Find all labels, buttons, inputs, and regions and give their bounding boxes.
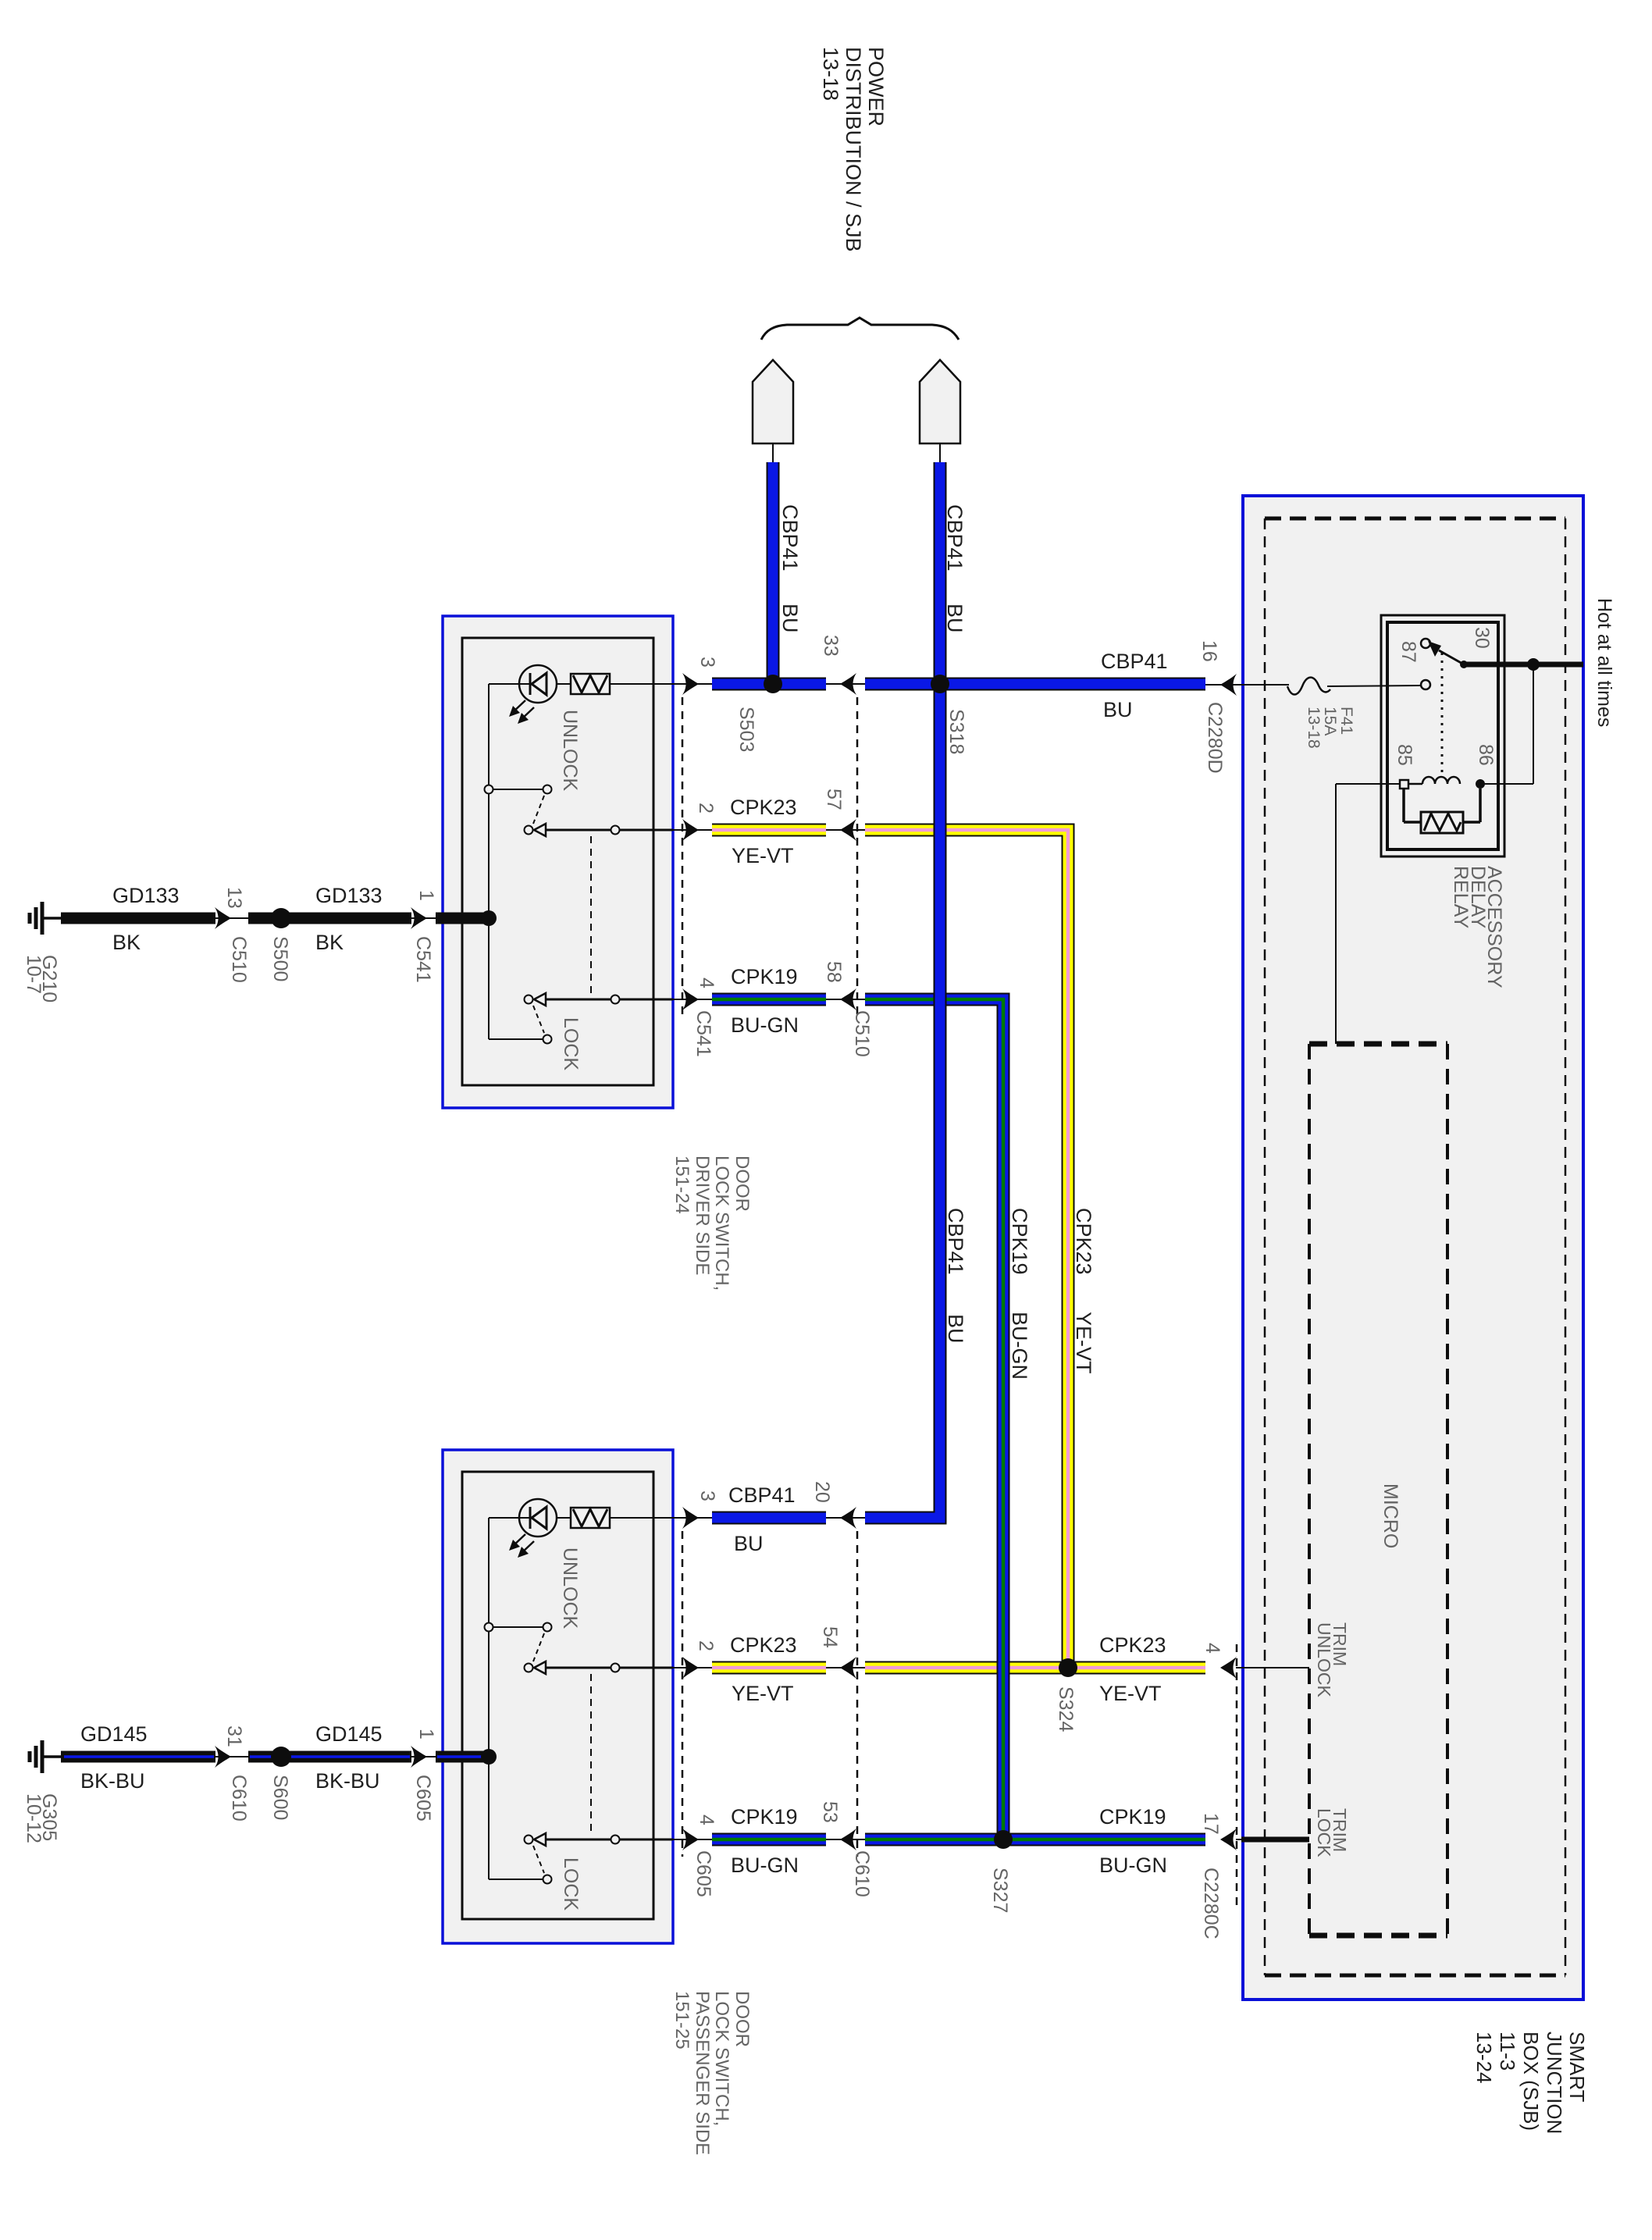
wire CBP41 BU arrow 33 to C2280D pin 16 (through S318): [865, 678, 1205, 691]
wire lead at box-side connector, CBP41 passenger pin3 row: [673, 1517, 712, 1519]
svg-text:13-24: 13-24: [1472, 2032, 1496, 2084]
connector arrow: [411, 1746, 427, 1768]
arrow pin 54 at connector C610: [840, 1657, 856, 1679]
arrow at passenger box pin 4: [682, 1829, 699, 1850]
svg-text:BK-BU: BK-BU: [80, 1769, 145, 1793]
svg-text:BOX (SJB): BOX (SJB): [1519, 2032, 1543, 2131]
indicator LED: [489, 1517, 531, 1519]
component box: door lock switch passenger side (outer blue box): [443, 1450, 673, 1943]
arrow at passenger box pin 3: [682, 1507, 699, 1529]
svg-text:LOCK SWITCH,: LOCK SWITCH,: [711, 1991, 732, 2126]
svg-text:3: 3: [696, 1490, 718, 1501]
svg-text:C541: C541: [692, 1010, 714, 1057]
splice S503: [764, 675, 782, 693]
wire CPK23 YE-VT arrow 54 to S324 to SJB pin4: [865, 1661, 1205, 1675]
wire lead at SJB-side connector, CPK19 driver pin4 row: [826, 999, 865, 1000]
svg-text:CPK19: CPK19: [1099, 1805, 1166, 1829]
lock switch pole and wire to pin 4: [525, 995, 533, 1004]
wire lead at box-side connector, CBP41 driver pin3 row: [673, 683, 712, 685]
wire CPK23 YE-VT passenger pin2 to arrow 54: [712, 1661, 826, 1675]
junction node on hot feed: [1527, 658, 1540, 671]
arrow 4 at connector C2280C: [1220, 1657, 1237, 1679]
svg-text:F41: F41: [1337, 707, 1355, 735]
wire thin lead at connector: [215, 917, 248, 919]
svg-text:C610: C610: [228, 1775, 250, 1822]
svg-text:2: 2: [695, 803, 717, 814]
connector arrow: [215, 1746, 231, 1768]
svg-text:DOOR: DOOR: [732, 1991, 753, 2047]
switch mechanical link (dashed): [590, 1674, 592, 1833]
svg-text:C610: C610: [851, 1850, 873, 1897]
svg-text:S503: S503: [735, 707, 757, 752]
relay pin 86 contact: [1476, 779, 1485, 789]
wire CPK19 BU-GN arrow 58 right then down to splice S327: [865, 999, 1003, 1839]
svg-text:54: 54: [819, 1626, 841, 1648]
svg-text:151-25: 151-25: [671, 1991, 692, 2049]
component box: door lock switch driver side (outer blue box): [443, 616, 673, 1108]
arrow pin 57 at connector C510: [840, 819, 856, 841]
svg-text:C605: C605: [692, 1850, 714, 1897]
connector C605 dashed boundary (passenger box side): [682, 1531, 684, 1857]
wire CBP41 BU from pentagon 2 through S318 down and left to passenger arrow 20: [865, 462, 940, 1518]
svg-text:3: 3: [696, 657, 718, 668]
unlock blade (dashed alternate position): [533, 796, 544, 824]
arrow at driver box pin 3: [682, 673, 699, 695]
svg-text:C541: C541: [412, 936, 434, 983]
component box: door lock switch passenger side (inner black box): [462, 1472, 653, 1919]
svg-text:DISTRIBUTION / SJB: DISTRIBUTION / SJB: [842, 47, 865, 252]
lock blade (dashed alternate position): [533, 1846, 544, 1873]
svg-text:CPK19: CPK19: [1008, 1208, 1031, 1275]
wire lead at SJB-side connector, CPK19 passenger pin4 row: [826, 1839, 865, 1840]
svg-text:BU-GN: BU-GN: [1099, 1854, 1167, 1877]
splice S500: [271, 908, 291, 928]
wire TRIM LOCK from MICRO to pin 17 (thick): [1236, 1839, 1243, 1840]
svg-text:30: 30: [1471, 627, 1493, 649]
svg-text:53: 53: [819, 1801, 841, 1823]
wire CBP41 BU from pentagon 1 down to splice S503: [767, 462, 780, 684]
wire lead at box-side connector, CPK23 passenger pin2 row: [673, 1667, 712, 1668]
svg-text:SMART: SMART: [1565, 2032, 1589, 2103]
svg-text:4: 4: [696, 1814, 717, 1825]
wire relay pin 85 down to MICRO: [1336, 783, 1399, 785]
svg-text:10-7: 10-7: [23, 955, 45, 994]
relay pin 87a rest contact: [1421, 639, 1430, 648]
svg-text:33: 33: [820, 635, 842, 657]
relay coil: [1400, 780, 1408, 789]
svg-text:Hot at all times: Hot at all times: [1593, 598, 1615, 727]
arrow pin 53 at connector C610: [840, 1829, 856, 1850]
connector C541 dashed boundary (driver box side): [682, 697, 684, 1015]
arrow at driver box pin 2: [682, 819, 699, 841]
svg-text:C2280D: C2280D: [1204, 702, 1226, 774]
svg-text:C510: C510: [228, 936, 250, 983]
svg-text:LOCK: LOCK: [1314, 1808, 1334, 1857]
svg-text:11-3: 11-3: [1496, 2032, 1519, 2071]
arrow 16 at connector C2280D: [1220, 674, 1237, 696]
svg-text:LOCK: LOCK: [560, 1017, 582, 1070]
switch mechanical link (dashed): [590, 836, 592, 993]
wire lead at SJB-side connector, CBP41 passenger pin3 row: [826, 1517, 865, 1519]
wire CPK19 BU-GN arrow 53 to S327 to SJB pin17: [865, 1833, 1205, 1846]
indicator LED: [489, 683, 531, 685]
svg-text:YE-VT: YE-VT: [732, 844, 794, 867]
wire lead at box-side connector, CPK23 driver pin2 row: [673, 829, 712, 831]
svg-text:58: 58: [823, 961, 845, 983]
svg-text:BU: BU: [734, 1532, 764, 1555]
off-page connector pentagon 2 (to power distribution): [920, 360, 960, 443]
svg-text:13-18: 13-18: [819, 47, 842, 101]
lock fixed contact wire: [489, 1879, 543, 1880]
wire CPK19 BU-GN driver pin4 to arrow 58: [712, 993, 826, 1006]
svg-text:CPK23: CPK23: [1099, 1633, 1166, 1657]
wire thin lead at connector: [411, 917, 437, 919]
svg-text:16: 16: [1198, 640, 1220, 662]
svg-text:CBP41: CBP41: [1101, 650, 1168, 673]
svg-text:57: 57: [823, 789, 845, 810]
svg-text:13: 13: [223, 887, 245, 909]
MICRO dashed box inside SJB: [1309, 1042, 1447, 1047]
svg-text:YE-VT: YE-VT: [1072, 1312, 1095, 1374]
svg-text:C510: C510: [851, 1010, 873, 1057]
svg-text:BU-GN: BU-GN: [731, 1013, 799, 1037]
svg-text:C2280C: C2280C: [1200, 1868, 1222, 1939]
svg-text:4: 4: [696, 978, 717, 988]
svg-text:CPK19: CPK19: [731, 965, 798, 988]
wire GD145 BK-BU segment (into switch box): [436, 1751, 490, 1763]
wire CPK19 BU-GN passenger pin4 to arrow 53: [712, 1833, 826, 1846]
wire CPK23 YE-VT driver pin2 to arrow 57: [712, 824, 826, 837]
svg-text:BU: BU: [944, 1314, 967, 1344]
wire lead at SJB-side connector, CPK23 passenger pin2 row: [826, 1667, 865, 1668]
svg-text:1: 1: [415, 1729, 437, 1740]
wire thin lead at connector: [215, 1756, 248, 1757]
svg-text:MICRO: MICRO: [1380, 1483, 1401, 1548]
svg-text:151-24: 151-24: [671, 1156, 692, 1214]
svg-text:DOOR: DOOR: [732, 1156, 753, 1212]
wire CBP41 BU driver pin3 to arrow 33: [712, 678, 826, 691]
unlock blade (dashed alternate position): [533, 1633, 544, 1661]
ground junction inside switch: [481, 910, 497, 926]
svg-text:GD145: GD145: [80, 1722, 148, 1746]
svg-text:CPK23: CPK23: [730, 1633, 797, 1657]
svg-text:BU: BU: [943, 604, 967, 633]
wire CBP41 BU passenger pin3 to arrow 20: [712, 1512, 826, 1525]
lock fixed contact wire: [489, 1038, 543, 1040]
unlock switch pole and wire to pin 2: [525, 1664, 533, 1672]
svg-text:LOCK: LOCK: [560, 1857, 582, 1911]
svg-text:CPK23: CPK23: [730, 796, 797, 819]
unlock fixed contact wire: [489, 1626, 543, 1628]
svg-text:BU: BU: [778, 604, 802, 633]
ground symbol G305: [41, 1740, 45, 1773]
svg-text:PASSENGER SIDE: PASSENGER SIDE: [692, 1991, 713, 2155]
lock blade (dashed alternate position): [533, 1006, 544, 1033]
svg-text:GD145: GD145: [315, 1722, 383, 1746]
wire GD145 BK-BU segment (connector to splice and on): [248, 1751, 411, 1763]
arrow pin 33 at connector C510: [840, 673, 856, 695]
connector C610 dashed boundary: [856, 1531, 859, 1857]
splice S600: [271, 1747, 291, 1767]
LED series resistor: [557, 1517, 571, 1519]
svg-text:LOCK SWITCH,: LOCK SWITCH,: [711, 1156, 732, 1291]
fuse F41 15A: [1287, 678, 1330, 695]
svg-text:31: 31: [223, 1725, 245, 1747]
wire GD133 BK segment (ground to connector): [61, 913, 215, 924]
wire hot at all times feed to relay pin 30: [1464, 662, 1583, 668]
svg-text:1: 1: [415, 890, 437, 901]
wire GD133 BK segment (into switch box): [436, 913, 490, 924]
arrow pin 58 at connector C510: [840, 988, 856, 1010]
lock switch pole and wire to pin 4: [525, 1836, 533, 1844]
svg-text:S324: S324: [1055, 1686, 1077, 1732]
connector arrow: [215, 907, 231, 929]
bundle brace over pentagons: [761, 318, 959, 340]
svg-text:S327: S327: [989, 1868, 1011, 1913]
svg-text:BK: BK: [112, 931, 141, 954]
svg-text:S318: S318: [945, 709, 967, 754]
splice S318: [931, 675, 949, 693]
wire lead at connector C2280D pin 16: [1205, 684, 1243, 686]
accessory delay relay inner box: [1387, 622, 1498, 849]
svg-text:17: 17: [1200, 1813, 1222, 1835]
wire lead at box-side connector, CPK19 driver pin4 row: [673, 999, 712, 1000]
svg-text:GD133: GD133: [315, 884, 383, 907]
relay internal resistor (parallel with coil): [1402, 788, 1405, 822]
svg-text:10-12: 10-12: [23, 1793, 45, 1843]
svg-text:20: 20: [811, 1481, 833, 1503]
SJB internal dashed boundary: [1265, 517, 1565, 521]
switch internal common rail wire: [488, 1518, 490, 1879]
svg-text:BK-BU: BK-BU: [315, 1769, 380, 1793]
accessory delay relay outer box: [1381, 615, 1504, 856]
component box: smart junction box SJB (blue box): [1243, 496, 1583, 2000]
svg-text:CBP41: CBP41: [943, 504, 967, 572]
svg-text:BK: BK: [315, 931, 344, 954]
component box: door lock switch driver side (inner black box): [462, 638, 653, 1085]
arrow pin 20 at connector C610: [840, 1507, 856, 1529]
svg-text:UNLOCK: UNLOCK: [559, 710, 581, 792]
svg-text:CBP41: CBP41: [728, 1483, 796, 1507]
svg-text:87: 87: [1397, 641, 1419, 663]
svg-text:BU-GN: BU-GN: [731, 1854, 799, 1877]
svg-text:POWER: POWER: [864, 47, 888, 126]
svg-text:86: 86: [1475, 744, 1497, 766]
wire CPK23 YE-VT arrow 57 right then down to splice S324: [865, 830, 1068, 1668]
unlock fixed contact wire: [489, 789, 543, 790]
wire fuse feed from pin 16 to relay pin 87: [1243, 684, 1289, 686]
svg-text:GD133: GD133: [112, 884, 180, 907]
connector C2280C dashed boundary: [1236, 1644, 1238, 1905]
relay switch blade from pin 30: [1439, 650, 1464, 664]
svg-text:C605: C605: [412, 1775, 434, 1822]
arrow at driver box pin 4: [682, 988, 699, 1010]
wire lead at SJB-side connector, CPK23 driver pin2 row: [826, 829, 865, 831]
svg-text:BU: BU: [1103, 698, 1133, 721]
svg-text:CBP41: CBP41: [778, 504, 802, 572]
svg-text:UNLOCK: UNLOCK: [559, 1547, 581, 1629]
arrow at passenger box pin 2: [682, 1657, 699, 1679]
wire from junction down to relay pin 86: [1533, 664, 1534, 784]
switch internal common rail wire: [488, 684, 490, 1039]
wire GD145 BK-BU segment (ground to connector): [61, 1751, 215, 1763]
splice S327: [994, 1830, 1013, 1849]
svg-text:UNLOCK: UNLOCK: [1314, 1622, 1334, 1698]
wire thin lead at connector: [411, 1756, 437, 1757]
svg-text:YE-VT: YE-VT: [1099, 1682, 1162, 1705]
svg-text:CPK23: CPK23: [1072, 1208, 1095, 1275]
LED series resistor: [557, 683, 571, 685]
connector arrow: [411, 907, 427, 929]
relay pin 87 contact: [1421, 680, 1430, 689]
arrow 17 at connector C2280C: [1220, 1829, 1237, 1850]
unlock switch pole and wire to pin 2: [525, 826, 533, 835]
svg-text:4: 4: [1202, 1643, 1223, 1654]
svg-text:DRIVER SIDE: DRIVER SIDE: [692, 1156, 713, 1275]
wire TRIM UNLOCK from MICRO to pin 4: [1236, 1667, 1309, 1668]
svg-text:15A: 15A: [1321, 707, 1339, 735]
off-page connector pentagon 1 (to power distribution): [753, 360, 793, 443]
relay actuation dotted link: [1441, 653, 1444, 777]
svg-text:CPK19: CPK19: [731, 1805, 798, 1829]
svg-text:JUNCTION: JUNCTION: [1543, 2032, 1566, 2134]
wire lead at box-side connector, CPK19 passenger pin4 row: [673, 1839, 712, 1840]
connector C510 dashed boundary: [856, 697, 859, 1015]
svg-text:S500: S500: [269, 936, 291, 981]
svg-text:S600: S600: [269, 1775, 291, 1820]
wire GD133 BK segment (connector to splice and on): [248, 913, 411, 924]
svg-text:CBP41: CBP41: [944, 1208, 967, 1275]
svg-text:BU-GN: BU-GN: [1008, 1312, 1031, 1380]
svg-text:RELAY: RELAY: [1450, 866, 1472, 928]
svg-text:2: 2: [695, 1640, 717, 1651]
splice S324: [1059, 1658, 1077, 1677]
svg-text:YE-VT: YE-VT: [732, 1682, 794, 1705]
svg-text:13-18: 13-18: [1305, 707, 1323, 749]
ground symbol G210: [41, 902, 45, 935]
wire lead at SJB-side connector, CBP41 driver pin3 row: [826, 683, 865, 685]
ground junction inside switch: [481, 1749, 497, 1765]
svg-text:85: 85: [1394, 744, 1415, 766]
